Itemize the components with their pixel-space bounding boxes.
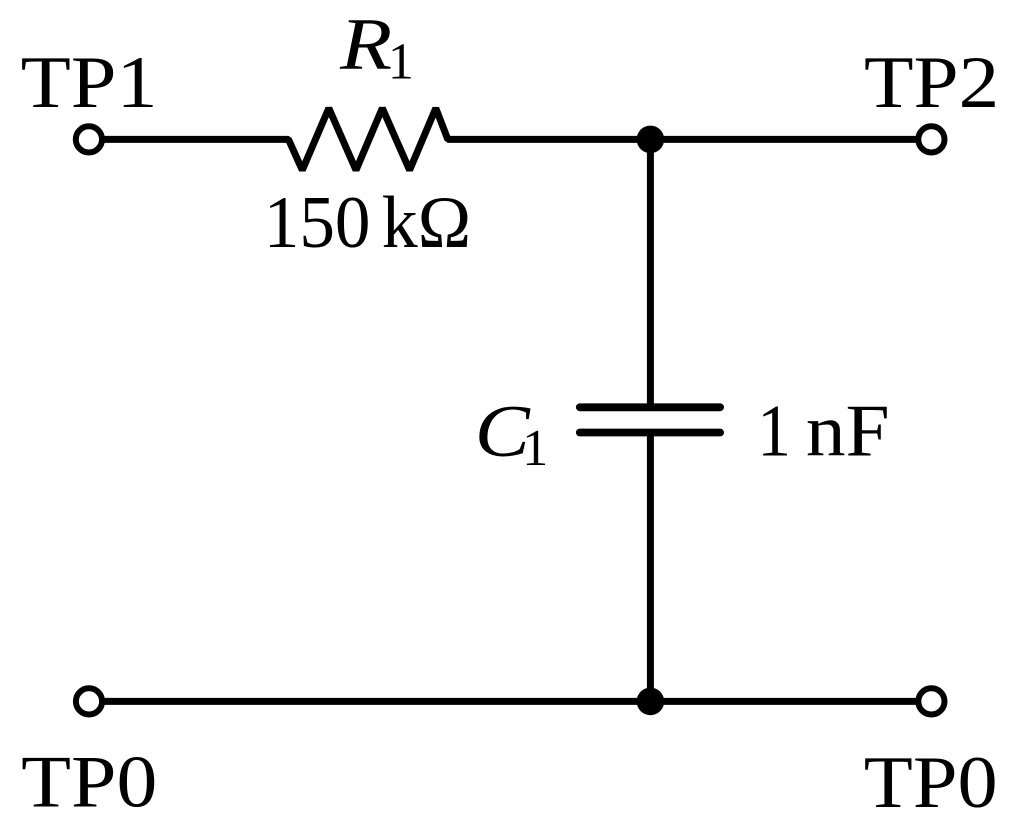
svg-text:TP0: TP0	[864, 742, 998, 824]
terminal TP1	[76, 126, 102, 152]
wire capacitor bottom plate to bottom junction	[647, 433, 654, 702]
svg-text:TP1: TP1	[21, 42, 158, 124]
svg-text:TP0: TP0	[21, 741, 157, 823]
svg-text:R: R	[339, 4, 392, 86]
terminal TP2	[918, 126, 944, 152]
terminal TP0 right	[918, 688, 944, 714]
svg-text:150: 150	[264, 182, 371, 264]
node junction top	[637, 126, 665, 154]
wire bottom rail	[104, 698, 916, 705]
svg-text:1: 1	[388, 34, 414, 91]
wire TP1 to resistor R1, resistor R1 zigzag, wire resistor to TP2	[104, 108, 916, 170]
svg-text:TP2: TP2	[864, 42, 999, 124]
svg-text:1: 1	[522, 420, 548, 477]
capacitor C1	[580, 407, 720, 432]
svg-text:1: 1	[757, 390, 791, 472]
svg-text:kΩ: kΩ	[382, 182, 471, 264]
svg-text:nF: nF	[806, 390, 890, 472]
node junction bottom	[637, 688, 665, 716]
terminal TP0 left	[76, 688, 102, 714]
wire junction to capacitor top plate	[647, 139, 654, 407]
